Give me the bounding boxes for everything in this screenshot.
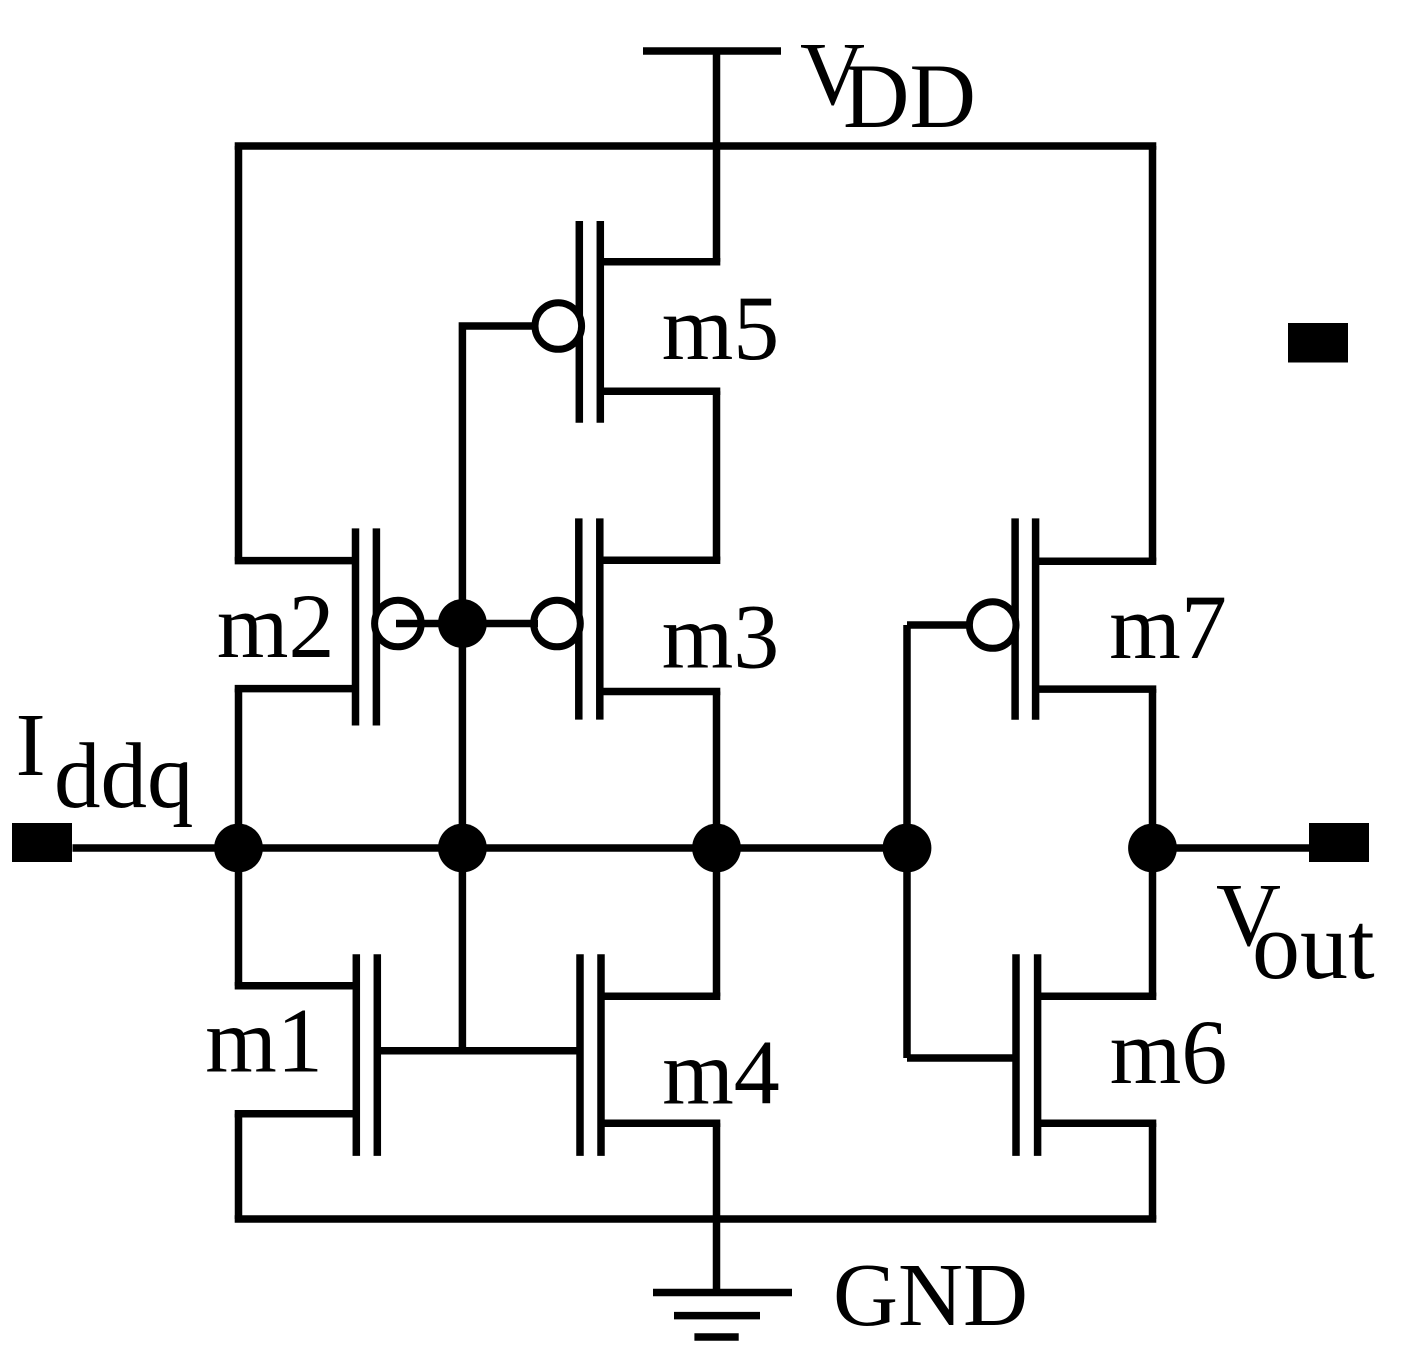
- wire m5 source to m3 drain: [713, 391, 721, 560]
- wire m7 gate column down to main wire: [903, 625, 911, 848]
- node Iddq junction: [214, 824, 263, 873]
- node m6 m7 gate junction: [883, 824, 932, 873]
- svg-text:m5: m5: [662, 277, 780, 379]
- svg-text:m4: m4: [662, 1022, 780, 1124]
- transistor m4: [580, 954, 720, 1156]
- svg-text:GND: GND: [833, 1246, 1028, 1345]
- svg-text:I: I: [16, 696, 46, 795]
- wire m4 source to ground rail: [713, 1123, 721, 1219]
- svg-text:m7: m7: [1109, 576, 1227, 678]
- svg-text:DD: DD: [843, 45, 976, 147]
- wire node Vout to m6 drain: [1149, 848, 1157, 996]
- wire m6 gate line: [907, 1054, 1016, 1062]
- transistor m1: [235, 954, 378, 1156]
- svg-text:ddq: ddq: [54, 725, 194, 828]
- wire m2 bubble to m3 bubble: [396, 620, 538, 628]
- transistor m2: [235, 528, 422, 725]
- transistor m3: [534, 518, 721, 719]
- power VDD bar: [643, 47, 781, 55]
- node junction dots: [214, 599, 1177, 872]
- ground symbol GND: [653, 1293, 792, 1338]
- svg-text:m2: m2: [217, 575, 335, 677]
- wire m2 source to node Iddq: [235, 689, 243, 848]
- node Vout junction: [1128, 824, 1177, 873]
- transistor m5: [535, 221, 720, 423]
- wire center node to m4 drain: [713, 848, 721, 996]
- svg-text:m1: m1: [205, 990, 323, 1092]
- wire m1 source to ground rail: [235, 1114, 243, 1219]
- wire bottom ground rail: [235, 1215, 1157, 1223]
- wire m3 source to center node: [713, 692, 721, 849]
- svg-text:m6: m6: [1110, 1001, 1228, 1103]
- wire VDD stem: [713, 51, 721, 262]
- wire m5 gate drop (central gate net): [462, 326, 535, 1051]
- wire m1 m4 gate line: [377, 1047, 580, 1055]
- node m2 m3 gate junction: [438, 599, 487, 648]
- wire Vout wire: [1153, 844, 1310, 852]
- wire m6 source to ground rail: [1149, 1123, 1157, 1219]
- wire m7 gate horizontal: [907, 621, 970, 629]
- transistor m6: [1016, 954, 1156, 1156]
- wire main node to m6 gate: [903, 848, 911, 1058]
- node m3 source junction: [692, 824, 741, 873]
- terminal Vout output: [1309, 823, 1369, 862]
- wire node Iddq to m1 drain: [235, 848, 243, 986]
- wire m7 source to node Vout: [1149, 689, 1157, 848]
- wire main Iddq wire: [73, 844, 908, 852]
- wire right column rail to m7 drain: [1149, 146, 1157, 561]
- terminal floating top right: [1288, 323, 1348, 363]
- wire top rail VDD net: [235, 142, 1157, 150]
- terminal Iddq input: [12, 823, 72, 862]
- wire left column upper (rail to m2 drain): [235, 146, 243, 561]
- wire GND stem: [713, 1219, 721, 1293]
- transistor m7: [969, 518, 1156, 719]
- svg-text:m3: m3: [662, 586, 780, 688]
- node central gate junction: [438, 824, 487, 873]
- svg-text:out: out: [1252, 892, 1375, 999]
